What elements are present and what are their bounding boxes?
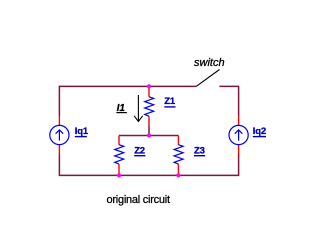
svg-text:Iq1: Iq1 <box>75 126 89 137</box>
svg-text:switch: switch <box>194 57 225 69</box>
svg-text:Z2: Z2 <box>134 145 145 156</box>
svg-text:Iq2: Iq2 <box>253 126 266 137</box>
svg-text:Z1: Z1 <box>164 96 176 107</box>
svg-text:Z3: Z3 <box>194 145 205 156</box>
svg-text:original circuit: original circuit <box>107 194 170 206</box>
